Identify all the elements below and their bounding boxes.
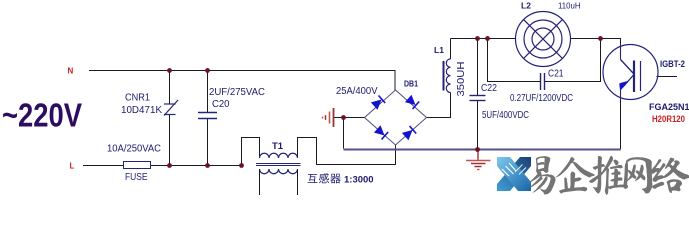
svg-text:C21: C21	[548, 69, 564, 80]
wire CNR1 top lead	[169, 71, 171, 105]
svg-text:T1: T1	[272, 141, 284, 152]
wire top rail left segment	[451, 38, 516, 40]
wire C22 lower lead	[477, 101, 479, 149]
svg-text:FUSE: FUSE	[125, 172, 148, 183]
svg-text:IGBT-2: IGBT-2	[660, 59, 685, 69]
wire C21 right riser	[545, 39, 601, 82]
wire bridge right corner to L1 bottom	[427, 93, 451, 118]
wire IGBT gate stub	[657, 76, 678, 78]
IGBT collector diagonal	[621, 60, 634, 74]
induction coil L2 110uH	[516, 12, 571, 67]
svg-text:H20R120: H20R120	[652, 114, 685, 125]
wire negative bus rail	[344, 149, 621, 151]
IGBT emitter lead inside circle	[620, 90, 622, 100]
node junction	[485, 36, 490, 41]
IGBT gate bar	[640, 61, 642, 91]
wire C21 left riser	[488, 39, 541, 82]
svg-text:10D471K: 10D471K	[121, 105, 162, 116]
transformer T1 secondary winding	[260, 169, 298, 174]
capacitor C22 5UF/400VDC	[470, 96, 486, 101]
transformer T1 core	[256, 164, 301, 166]
wire L line left of fuse	[83, 165, 123, 167]
svg-text:1:3000: 1:3000	[344, 175, 374, 186]
svg-text:25A/400V: 25A/400V	[336, 86, 378, 97]
wire C22 upper lead	[477, 39, 479, 96]
wire ground junction drop to negative rail	[343, 118, 345, 149]
svg-text:FGA25N120: FGA25N120	[649, 102, 689, 112]
transformer T1 primary winding	[260, 153, 298, 158]
svg-text:2UF/275VAC: 2UF/275VAC	[209, 87, 265, 98]
svg-text:5UF/400VDC: 5UF/400VDC	[482, 110, 529, 121]
earth ground on negative rail	[466, 151, 491, 170]
wire L1 top lead	[450, 39, 452, 60]
capacitor C21 0.27UF/1200VDC	[540, 73, 542, 90]
svg-text:DB1: DB1	[404, 79, 418, 89]
node junction	[598, 36, 603, 41]
node junction	[167, 68, 172, 73]
node junction	[205, 163, 210, 168]
IGBT collector lead	[620, 45, 622, 60]
svg-text:110uH: 110uH	[558, 1, 581, 11]
capacitor C20 2UF/275VAC	[198, 113, 217, 119]
wire L line right of fuse	[151, 165, 241, 167]
svg-text:0.27UF/1200VDC: 0.27UF/1200VDC	[510, 93, 573, 104]
node junction	[205, 68, 210, 73]
svg-text:10A/250VAC: 10A/250VAC	[107, 144, 161, 155]
svg-text:C22: C22	[481, 83, 497, 94]
svg-text:C20: C20	[212, 99, 230, 110]
diode D2 top-right	[405, 95, 419, 109]
wire C20 top lead	[207, 71, 209, 113]
wire T1 primary right to bridge bottom	[298, 138, 396, 165]
svg-text:~220V: ~220V	[2, 97, 82, 134]
inductor L1 350UH	[446, 59, 450, 93]
watermark logo X	[497, 157, 531, 191]
wire T1 secondary leads	[260, 169, 298, 195]
wire CNR1 bottom lead	[169, 115, 171, 166]
svg-text:N: N	[68, 67, 74, 76]
IGBT U1 circle	[603, 45, 658, 100]
label 互感器 1:3000	[308, 173, 374, 185]
wire C20 bottom lead	[207, 119, 209, 166]
svg-text:L: L	[70, 162, 75, 171]
watermark text 易企推网络	[528, 156, 689, 195]
wire IGBT emitter to rail	[620, 100, 622, 150]
wire chassis ground to bridge left corner	[334, 117, 365, 119]
bridge rectifier DB1 25A/400V diamond	[365, 90, 427, 145]
diode D1 top-left	[371, 96, 385, 110]
svg-text:L1: L1	[434, 45, 444, 55]
svg-text:350UH: 350UH	[456, 62, 467, 97]
node junction	[475, 147, 480, 152]
fuse FUSE 10A/250VAC	[124, 162, 151, 169]
diode D3 bottom-left	[374, 125, 388, 139]
node junction	[475, 36, 480, 41]
IGBT main bar	[633, 61, 635, 93]
diode D4 bottom-right	[402, 126, 416, 140]
varistor CNR1 10D471K	[164, 100, 178, 116]
wire top rail right segment	[571, 39, 621, 45]
wire L to T1 primary left	[242, 138, 260, 166]
chassis ground left of bridge	[323, 108, 334, 127]
node junction	[167, 163, 172, 168]
node junction	[239, 163, 244, 168]
svg-text:CNR1: CNR1	[125, 93, 150, 104]
svg-text:L2: L2	[521, 1, 531, 11]
node junction	[341, 115, 346, 120]
IGBT emitter diagonal with arrow	[623, 75, 634, 87]
wire N line	[89, 71, 395, 91]
